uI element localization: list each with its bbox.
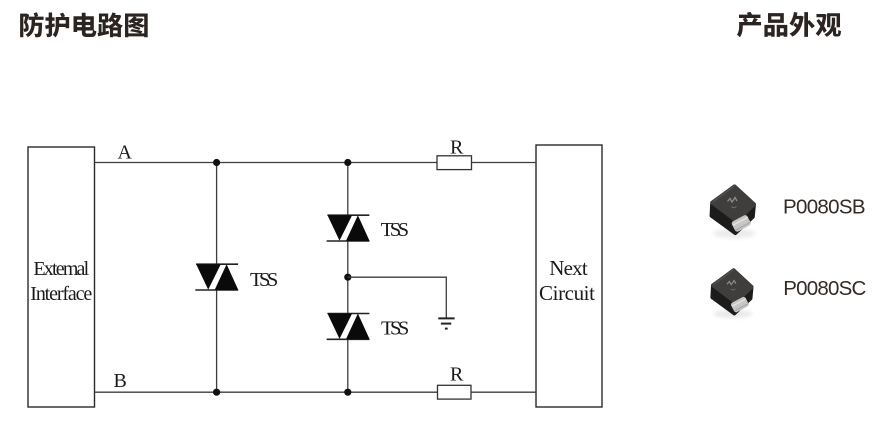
wire: midpoint node to ground	[348, 277, 447, 318]
svg-text:A: A	[118, 142, 133, 164]
wire: line A from External Interface to resistor R1	[95, 162, 438, 164]
junction dot on line A at TSS2 branch	[344, 159, 351, 166]
svg-text:Interface: Interface	[30, 283, 92, 305]
svg-text:P0080SC: P0080SC	[783, 277, 866, 300]
svg-text:Circuit: Circuit	[539, 281, 595, 305]
junction dot on line A at TSS1 branch	[213, 159, 220, 166]
junction dot on line B at TSS1 branch	[213, 389, 220, 396]
svg-text:TSS: TSS	[381, 219, 409, 241]
wire: line B from External Interface to resistor R2	[95, 391, 438, 393]
svg-text:R: R	[450, 136, 464, 158]
svg-text:TSS: TSS	[250, 269, 278, 291]
wire: R1 to Next Circuit	[472, 162, 537, 164]
junction dot on line B at TSS3 branch	[344, 389, 351, 396]
resistor R2 body	[438, 385, 472, 399]
svg-text:Next: Next	[549, 256, 588, 280]
resistor R1 body	[437, 156, 472, 170]
svg-text:R: R	[450, 364, 464, 386]
TSS device TSS3: bidirectional thyristor surge suppressor symbol	[327, 313, 370, 341]
svg-text:Extemal: Extemal	[33, 258, 89, 280]
TSS device TSS1: bidirectional thyristor surge suppressor symbol	[195, 263, 238, 291]
product photo: SMB package P0080SB	[711, 186, 755, 238]
wire: vertical branch through TSS1 from line A to line B	[216, 163, 218, 393]
wire: R2 to Next Circuit	[471, 391, 536, 393]
svg-text:P0080SB: P0080SB	[783, 196, 866, 219]
svg-text:TSS: TSS	[381, 318, 409, 340]
product photo: SMC package P0080SC	[712, 270, 753, 318]
block: Next Circuit box	[536, 145, 602, 407]
junction dot at midpoint node between TSS2 and TSS3	[344, 274, 351, 281]
wire: vertical branch through TSS2/TSS3 from line A to line B	[347, 163, 349, 393]
block: External Interface box	[28, 147, 95, 407]
ground symbol	[438, 318, 454, 328]
TSS device TSS2: bidirectional thyristor surge suppressor symbol	[327, 214, 370, 242]
title 产品外观 (product appearance)	[737, 12, 841, 37]
svg-text:B: B	[114, 370, 127, 392]
title 防护电路图 (protection circuit diagram)	[20, 12, 148, 37]
